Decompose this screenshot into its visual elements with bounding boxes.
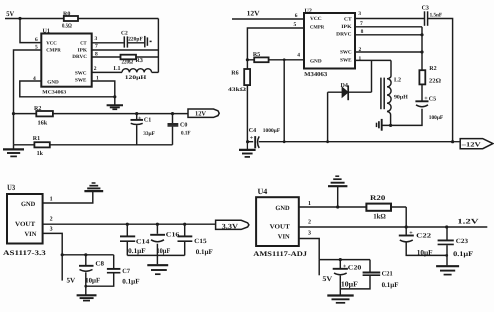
svg-text:0.1µF: 0.1µF (196, 248, 213, 256)
svg-text:+: + (343, 264, 347, 270)
svg-text:C16: C16 (166, 232, 180, 239)
svg-text:1.2V: 1.2V (457, 217, 478, 225)
svg-text:5V: 5V (6, 10, 14, 18)
svg-text:C7: C7 (122, 268, 130, 275)
svg-text:3: 3 (50, 227, 53, 233)
svg-text:VCC: VCC (46, 41, 57, 47)
svg-text:6: 6 (35, 37, 38, 43)
svg-text:5V: 5V (322, 275, 332, 283)
svg-text:10µF: 10µF (157, 247, 171, 255)
svg-text:SWE: SWE (75, 77, 87, 83)
svg-text:4: 4 (33, 76, 36, 82)
svg-text:3: 3 (95, 36, 98, 42)
svg-text:CT: CT (80, 41, 87, 47)
svg-text:R0: R0 (63, 11, 70, 17)
svg-text:0.1µF: 0.1µF (453, 250, 473, 258)
svg-text:1: 1 (359, 56, 362, 62)
svg-text:1kΩ: 1kΩ (373, 212, 386, 220)
svg-text:5: 5 (35, 44, 38, 50)
svg-text:3.3V: 3.3V (222, 222, 238, 230)
svg-text:R2: R2 (429, 66, 436, 72)
svg-text:U3: U3 (7, 183, 15, 192)
svg-text:VOUT: VOUT (270, 224, 291, 231)
svg-text:12V: 12V (195, 111, 206, 118)
svg-text:0.5Ω: 0.5Ω (62, 24, 72, 30)
svg-text:1: 1 (96, 76, 99, 82)
svg-text:90µH: 90µH (394, 94, 409, 100)
svg-text:0.1µF: 0.1µF (128, 247, 146, 255)
svg-text:5: 5 (294, 22, 297, 28)
svg-text:10µF: 10µF (417, 248, 433, 257)
svg-text:0.1µF: 0.1µF (382, 281, 399, 289)
svg-text:R5: R5 (253, 52, 260, 58)
svg-text:+: + (250, 135, 254, 141)
svg-text:1: 1 (50, 197, 53, 203)
svg-text:12V: 12V (247, 10, 260, 18)
svg-text:SWC: SWC (75, 70, 87, 76)
svg-text:R2: R2 (34, 106, 41, 112)
svg-text:7: 7 (360, 21, 363, 27)
svg-text:+: + (424, 96, 428, 102)
svg-text:VOUT: VOUT (15, 221, 36, 228)
svg-text:U1: U1 (43, 29, 50, 35)
svg-text:MC34063: MC34063 (42, 90, 67, 96)
svg-text:IPK: IPK (341, 24, 351, 30)
svg-text:VCC: VCC (310, 16, 322, 22)
svg-text:SWE: SWE (340, 58, 352, 64)
svg-text:CMPR: CMPR (46, 47, 61, 53)
svg-text:C0: C0 (180, 122, 187, 128)
svg-text:16k: 16k (38, 120, 48, 127)
svg-text:IPK: IPK (78, 47, 88, 53)
svg-text:+: + (409, 230, 413, 236)
svg-text:1.5nF: 1.5nF (430, 13, 443, 19)
svg-text:8: 8 (95, 51, 98, 57)
svg-text:2: 2 (308, 220, 311, 226)
svg-text:22Ω: 22Ω (429, 79, 441, 85)
svg-text:8: 8 (361, 29, 364, 35)
svg-text:3: 3 (308, 231, 311, 237)
svg-text:U4: U4 (258, 187, 268, 196)
svg-text:AS1117-3.3: AS1117-3.3 (3, 249, 46, 257)
svg-text:100µF: 100µF (429, 115, 444, 121)
svg-text:U2: U2 (305, 8, 312, 14)
svg-text:4: 4 (297, 53, 300, 59)
svg-text:33µF: 33µF (143, 131, 155, 137)
svg-text:C15: C15 (194, 238, 207, 245)
svg-text:+: + (138, 116, 142, 122)
svg-text:CT: CT (344, 17, 352, 23)
svg-text:220Ω: 220Ω (122, 60, 134, 66)
svg-text:C21: C21 (382, 271, 393, 278)
svg-text:L2: L2 (394, 78, 401, 84)
svg-text:SWC: SWC (340, 50, 352, 56)
svg-text:7: 7 (95, 44, 98, 50)
svg-text:R1: R1 (33, 136, 40, 142)
svg-text:R6: R6 (231, 70, 238, 76)
svg-text:–12V: –12V (460, 142, 481, 149)
svg-text:C8: C8 (95, 261, 104, 268)
svg-text:GND: GND (310, 59, 322, 65)
svg-text:VIN: VIN (25, 231, 37, 238)
svg-text:120µH: 120µH (125, 75, 147, 81)
svg-text:C20: C20 (348, 264, 362, 271)
svg-text:L1: L1 (114, 66, 121, 72)
svg-text:2: 2 (50, 216, 53, 222)
svg-text:2: 2 (359, 47, 362, 53)
svg-text:D4: D4 (341, 83, 348, 89)
svg-text:1000µF: 1000µF (263, 128, 281, 134)
svg-text:0.1F: 0.1F (181, 131, 191, 137)
svg-text:DRVC: DRVC (72, 54, 87, 60)
svg-text:10µF: 10µF (85, 276, 100, 284)
svg-text:C3: C3 (422, 5, 429, 11)
svg-text:C1: C1 (144, 117, 151, 123)
svg-text:10µF: 10µF (341, 280, 358, 289)
svg-text:C2: C2 (121, 30, 128, 36)
svg-text:C23: C23 (456, 238, 469, 245)
svg-text:6: 6 (295, 13, 298, 19)
svg-text:GND: GND (275, 205, 289, 212)
svg-text:1: 1 (308, 201, 311, 207)
svg-text:2: 2 (94, 66, 97, 72)
svg-text:GND: GND (21, 201, 35, 208)
svg-text:R20: R20 (370, 194, 386, 202)
svg-text:1k: 1k (37, 150, 44, 157)
svg-text:CMPR: CMPR (310, 24, 325, 30)
svg-text:C22: C22 (416, 232, 431, 239)
svg-text:5V: 5V (67, 276, 76, 284)
svg-text:DRVC: DRVC (336, 32, 352, 38)
svg-text:3: 3 (358, 11, 361, 17)
svg-text:GND: GND (47, 80, 59, 86)
svg-text:220pF: 220pF (128, 36, 143, 42)
svg-text:R3: R3 (136, 58, 143, 64)
svg-text:43kΩ: 43kΩ (228, 87, 247, 93)
svg-text:AMS1117-ADJ: AMS1117-ADJ (253, 250, 307, 258)
svg-text:0.1µF: 0.1µF (122, 278, 139, 286)
svg-text:M34063: M34063 (304, 72, 327, 78)
svg-text:C4: C4 (249, 128, 256, 134)
svg-text:C14: C14 (136, 238, 150, 245)
svg-text:C5: C5 (429, 96, 436, 102)
svg-text:VIN: VIN (278, 234, 290, 241)
